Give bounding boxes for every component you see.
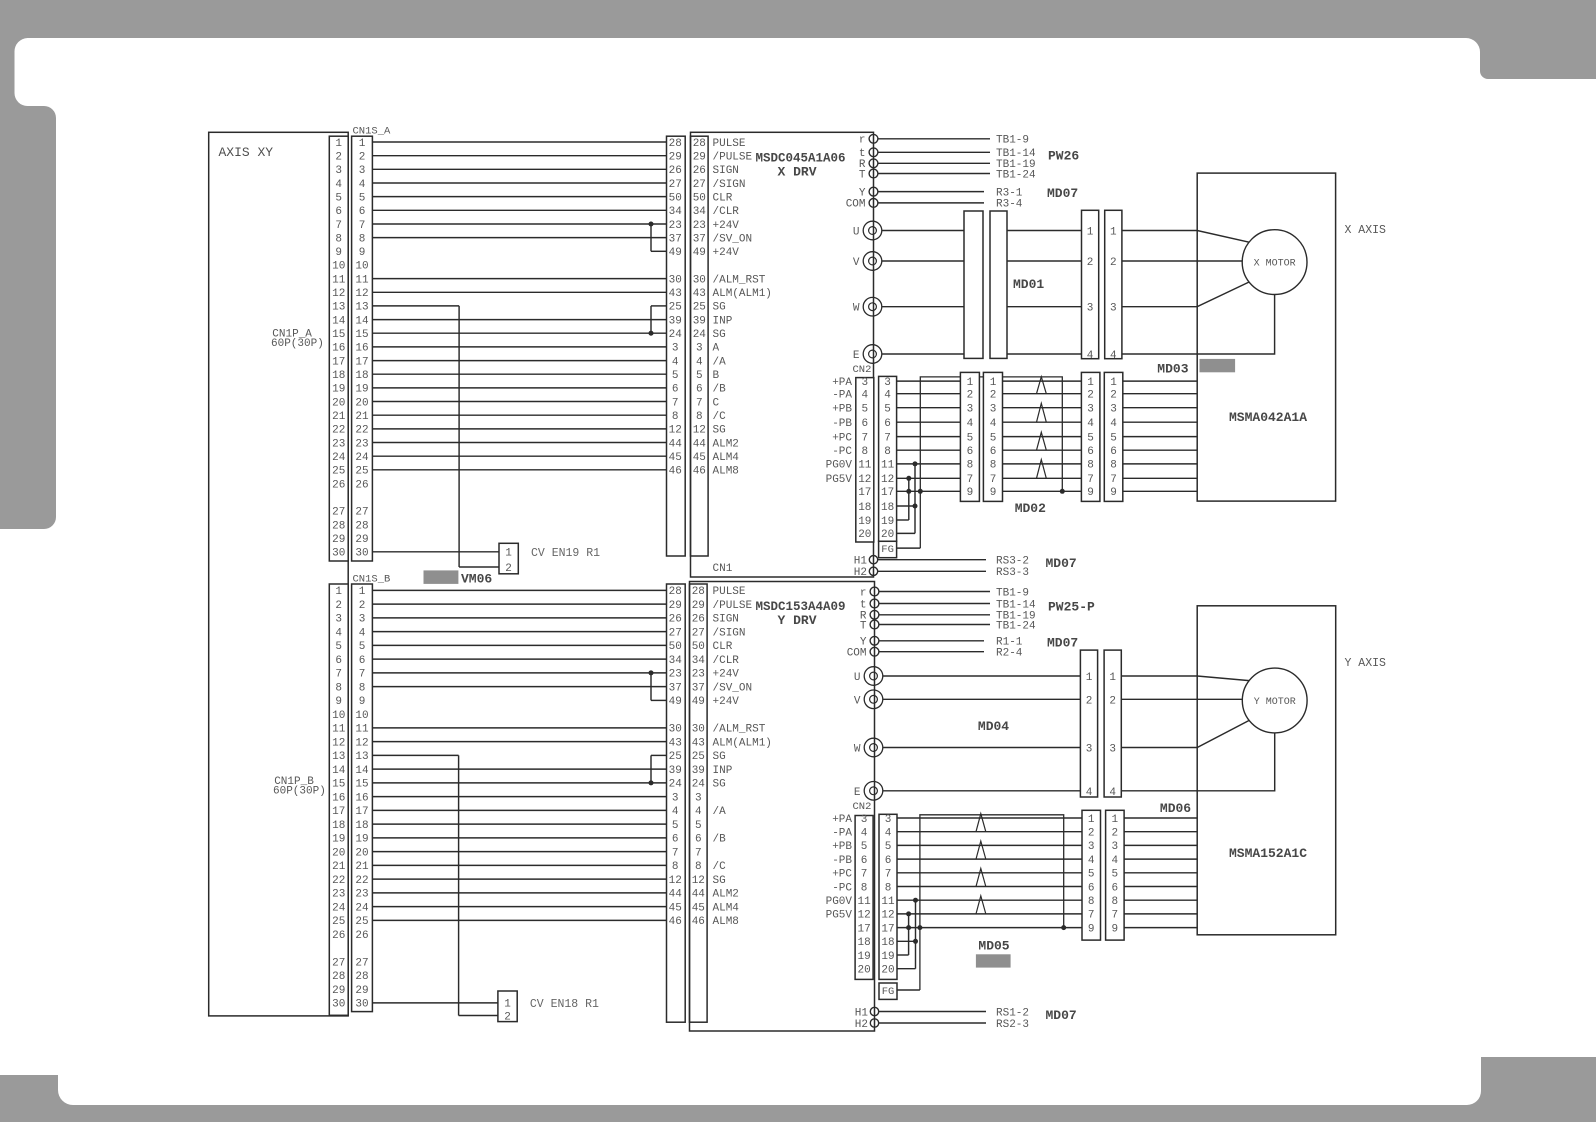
MD02 bar1 pin numbers (967, 377, 974, 499)
junction dot SG (649, 780, 654, 785)
svg-text:5: 5 (1087, 432, 1094, 444)
motor power connector bar right (1105, 210, 1122, 358)
connector CN1S_A pin numbers 1-30 (355, 138, 369, 560)
svg-text:/SIGN: /SIGN (713, 179, 746, 191)
svg-text:39: 39 (693, 315, 706, 327)
svg-text:3: 3 (1086, 744, 1093, 756)
svg-text:10: 10 (332, 261, 345, 273)
wire terminal COM to R3-4 (878, 202, 984, 204)
svg-text:CV EN19 R1: CV EN19 R1 (531, 547, 600, 560)
svg-text:A: A (713, 343, 720, 355)
svg-text:12: 12 (692, 875, 705, 887)
gray mark VM06 (424, 570, 459, 584)
svg-text:21: 21 (355, 411, 369, 423)
svg-text:15: 15 (332, 329, 345, 341)
wire CN1S_B pin 17 to CN1 connector (372, 809, 666, 811)
svg-text:25: 25 (355, 916, 368, 928)
svg-text:5: 5 (335, 641, 342, 653)
svg-text:/PULSE: /PULSE (713, 152, 753, 164)
wire terminal COM to R2-4 (879, 651, 984, 653)
terminal W (B) (864, 738, 883, 757)
svg-text:TB1-9: TB1-9 (996, 587, 1029, 599)
wire CN2 pin 11 (897, 899, 1082, 901)
encoder bar4 pin numbers (1111, 814, 1118, 936)
wire E MD01 to motor connector (1007, 353, 1082, 355)
svg-text:V: V (854, 695, 861, 707)
svg-text:45: 45 (669, 452, 682, 464)
svg-text:29: 29 (355, 534, 368, 546)
MD05 encoder connector bar 4 (1106, 810, 1125, 940)
svg-text:2: 2 (1088, 828, 1095, 840)
svg-text:t: t (860, 599, 867, 611)
svg-text:6: 6 (1087, 446, 1094, 458)
wire encoder row 8 mid (1081, 899, 1083, 901)
terminal E (A) (863, 345, 882, 364)
svg-text:27: 27 (692, 627, 705, 639)
wire CN2 pin 5 to encoder cable (897, 407, 961, 409)
wire encoder row 6 mid (1003, 449, 1082, 451)
wire encoder row 9 to motor (1123, 490, 1197, 492)
svg-text:19: 19 (881, 951, 894, 963)
svg-text:8: 8 (885, 882, 892, 894)
svg-text:8: 8 (695, 861, 702, 873)
svg-text:CN1: CN1 (713, 563, 733, 575)
driver CN1 signal labels (B) (713, 586, 772, 928)
svg-text:8: 8 (1088, 896, 1095, 908)
wire CN1S_B pin 3 to CN1 connector (372, 617, 666, 619)
junction dot pin 17 a (906, 925, 911, 930)
wire CN1S_A pin 17 to CN1 connector (372, 360, 666, 362)
svg-text:30: 30 (669, 274, 682, 286)
svg-text:18: 18 (332, 370, 345, 382)
svg-text:19: 19 (332, 384, 345, 396)
svg-text:CLR: CLR (713, 641, 733, 653)
terminal T (B) (870, 620, 879, 629)
svg-text:15: 15 (332, 779, 345, 791)
svg-text:1: 1 (335, 138, 342, 150)
wire encoder row 5 to motor (1123, 436, 1197, 438)
MD02 encoder connector bar 2 (983, 372, 1002, 501)
svg-text:44: 44 (669, 438, 683, 450)
svg-text:28: 28 (355, 520, 368, 532)
wire CN2 pin 20 stub (897, 532, 915, 534)
cable CN2 pin numbers (B) (881, 814, 895, 977)
svg-text:4: 4 (335, 179, 342, 191)
svg-text:/B: /B (713, 384, 727, 396)
terminal Y (B) (870, 636, 879, 645)
svg-text:4: 4 (1088, 855, 1095, 867)
svg-text:29: 29 (332, 985, 345, 997)
svg-text:+24V: +24V (713, 669, 740, 681)
wire CN1S_A pin 2 to CN1 connector (372, 155, 666, 157)
wire encoder row 4 mid (1003, 421, 1082, 423)
svg-text:16: 16 (332, 343, 345, 355)
svg-text:PW25-P: PW25-P (1048, 600, 1095, 615)
wire encoder row 1 mid (1081, 817, 1083, 819)
wire drop to CV connector pin 2 (459, 1015, 498, 1017)
svg-text:W: W (853, 303, 860, 315)
connector CN1P_A pin strip (329, 136, 348, 561)
svg-text:29: 29 (692, 600, 705, 612)
svg-text:-PC: -PC (832, 882, 852, 894)
driver CN2 pin numbers (A) (858, 377, 872, 541)
svg-text:4: 4 (885, 828, 892, 840)
MD02 encoder connector bar 1 (960, 372, 979, 501)
svg-text:12: 12 (693, 425, 706, 437)
svg-text:+24V: +24V (713, 696, 740, 708)
wire CN1S_A pin 21 to CN1 connector (372, 414, 666, 416)
svg-text:13: 13 (332, 302, 345, 314)
wire W to motor connector (883, 747, 1081, 749)
wire CN1S_B pin 6 to CN1 connector (372, 658, 666, 660)
wire encoder row 4 to motor (1123, 421, 1197, 423)
terminal V (A) (863, 252, 882, 271)
svg-text:3: 3 (672, 343, 679, 355)
wire V phase to motor (1122, 260, 1242, 262)
wire CN1S_A pin 16 to CN1 connector (372, 346, 666, 348)
svg-text:18: 18 (858, 502, 871, 514)
svg-text:6: 6 (967, 446, 974, 458)
twisted pair symbol 1 (976, 814, 986, 832)
svg-text:7: 7 (884, 432, 891, 444)
wire +24V jumper vertical (650, 673, 652, 701)
svg-text:25: 25 (669, 302, 682, 314)
wire CN1S_A pin 18 to CN1 connector (372, 373, 666, 375)
wire U phase to motor (1121, 676, 1249, 681)
wire encoder row 9 to motor (1124, 927, 1197, 929)
svg-text:ALM2: ALM2 (713, 889, 739, 901)
wire CN1S_A pin 22 to CN1 connector (372, 428, 666, 430)
svg-text:9: 9 (967, 487, 974, 499)
svg-text:U: U (854, 672, 861, 684)
wire CN1S_A pin 7 to CN1 connector (372, 223, 666, 225)
svg-text:r: r (860, 587, 867, 599)
svg-text:27: 27 (669, 627, 682, 639)
junction dot pin 18 (913, 504, 918, 509)
wire CN1S_A pin 19 to CN1 connector (372, 387, 666, 389)
svg-text:23: 23 (669, 220, 682, 232)
wire encoder row 4 mid (1081, 858, 1083, 860)
svg-text:MD07: MD07 (1046, 556, 1077, 571)
svg-text:23: 23 (692, 669, 705, 681)
svg-text:PG5V: PG5V (826, 910, 853, 922)
terminal E (B) (864, 782, 883, 801)
svg-text:B: B (713, 370, 720, 382)
svg-text:INP: INP (713, 315, 733, 327)
svg-text:/PULSE: /PULSE (713, 600, 753, 612)
svg-text:X AXIS: X AXIS (1345, 224, 1387, 237)
svg-text:/C: /C (713, 861, 727, 873)
svg-text:4: 4 (1087, 418, 1094, 430)
wire terminal R to TB1-19 (879, 614, 990, 616)
svg-text:SG: SG (713, 302, 726, 314)
svg-text:8: 8 (967, 460, 974, 472)
wire CN1S_A pin 20 to CN1 connector (372, 401, 666, 403)
svg-text:25: 25 (693, 302, 706, 314)
wire U to MD01 connector (882, 230, 964, 232)
svg-text:1: 1 (1109, 672, 1116, 684)
wire encoder row 3 to motor (1123, 407, 1197, 409)
wire +24V jumper horizontal (651, 699, 667, 701)
wire CN1S_B pin 11 to CN1 connector (372, 727, 666, 729)
svg-text:6: 6 (1110, 446, 1117, 458)
svg-text:Y DRV: Y DRV (777, 613, 816, 628)
svg-text:12: 12 (669, 425, 682, 437)
wire CN2 pin 3 to encoder cable (897, 380, 961, 382)
svg-text:28: 28 (692, 586, 705, 598)
svg-text:25: 25 (692, 751, 705, 763)
svg-text:CN2: CN2 (853, 364, 872, 376)
svg-text:18: 18 (355, 820, 368, 832)
svg-text:12: 12 (669, 875, 682, 887)
wire CN2 pin 6 to encoder cable (897, 421, 961, 423)
svg-text:5: 5 (884, 404, 891, 416)
svg-text:/ALM_RST: /ALM_RST (713, 274, 766, 286)
svg-text:SG: SG (713, 751, 726, 763)
svg-text:30: 30 (693, 274, 706, 286)
wire CN1S_B pin 25 to CN1 connector (372, 919, 666, 921)
wire encoder row 2 to motor (1124, 831, 1197, 833)
svg-text:2: 2 (1087, 390, 1094, 402)
encoder signal labels (A) (826, 377, 853, 486)
svg-text:MD04: MD04 (978, 719, 1009, 734)
svg-text:2: 2 (1086, 695, 1093, 707)
wire encoder row 8 to motor (1124, 899, 1197, 901)
svg-text:RS2-3: RS2-3 (996, 1019, 1029, 1031)
driver MSDC045A1A06 box (691, 132, 874, 577)
motor box MSMA042A1A (1197, 173, 1335, 501)
svg-text:16: 16 (355, 343, 368, 355)
svg-text:1: 1 (504, 999, 511, 1011)
wire terminal t to TB1-14 (878, 151, 990, 153)
junction dot pin 12 (906, 911, 911, 916)
svg-text:MD06: MD06 (1160, 801, 1191, 816)
wire E to MD01 connector (882, 353, 964, 355)
wire terminal r to TB1-9 (878, 138, 990, 140)
svg-text:4: 4 (884, 390, 891, 402)
svg-text:8: 8 (696, 411, 703, 423)
svg-text:20: 20 (355, 397, 368, 409)
svg-text:6: 6 (359, 206, 366, 218)
wire E to motor connector (883, 790, 1081, 792)
wire encoder row 2 mid (1081, 831, 1083, 833)
svg-text:30: 30 (692, 724, 705, 736)
svg-text:2: 2 (505, 563, 512, 575)
svg-text:CN1S_B: CN1S_B (353, 574, 391, 586)
svg-text:8: 8 (1087, 460, 1094, 472)
svg-text:24: 24 (693, 329, 707, 341)
wire encoder row 5 mid (1003, 436, 1082, 438)
connector CV EN18 box (498, 991, 517, 1022)
svg-text:2: 2 (359, 600, 366, 612)
svg-text:ALM8: ALM8 (713, 466, 739, 478)
svg-text:1: 1 (1087, 227, 1094, 239)
svg-text:25: 25 (332, 916, 345, 928)
wire V to motor connector (883, 698, 1081, 700)
svg-text:50: 50 (669, 641, 682, 653)
svg-text:46: 46 (669, 466, 682, 478)
connector CV EN19 box (499, 543, 518, 574)
svg-text:/SV_ON: /SV_ON (713, 233, 753, 245)
wire CN1S_B pin 2 to CN1 connector (372, 603, 666, 605)
svg-text:11: 11 (858, 460, 872, 472)
svg-text:28: 28 (669, 586, 682, 598)
terminal R (A) (869, 159, 878, 168)
svg-text:COM: COM (846, 199, 866, 211)
svg-text:6: 6 (672, 834, 679, 846)
svg-text:4: 4 (1110, 418, 1117, 430)
svg-text:12: 12 (858, 474, 871, 486)
svg-text:/CLR: /CLR (713, 655, 740, 667)
svg-text:5: 5 (1088, 869, 1095, 881)
svg-text:3: 3 (1110, 404, 1117, 416)
svg-text:13: 13 (332, 751, 345, 763)
wire CN1S_B pin 1 to CN1 connector (372, 589, 666, 591)
svg-text:8: 8 (861, 882, 868, 894)
svg-text:4: 4 (695, 806, 702, 818)
svg-text:28: 28 (332, 520, 345, 532)
svg-text:9: 9 (335, 247, 342, 259)
wire drop to CV connector pin 2 (459, 566, 499, 568)
motor power connector bar right (1104, 650, 1121, 797)
svg-text:9: 9 (359, 247, 366, 259)
svg-text:6: 6 (335, 655, 342, 667)
svg-text:T: T (860, 620, 867, 632)
connector CN1S_B strip (352, 584, 373, 1012)
svg-text:20: 20 (332, 847, 345, 859)
svg-text:PULSE: PULSE (713, 138, 746, 150)
junction dot +24V (649, 222, 654, 227)
svg-text:28: 28 (669, 138, 682, 150)
svg-text:18: 18 (355, 370, 368, 382)
junction dot SG (649, 331, 654, 336)
svg-text:+PC: +PC (832, 869, 852, 881)
wire CN1S_B pin 30 to CV connector pin 1 (372, 1002, 498, 1004)
terminal H2 (A) (869, 567, 877, 575)
wire CN1S_A pin 11 to CN1 connector (372, 278, 666, 280)
svg-text:17: 17 (858, 487, 871, 499)
wire CN1S_B pin 24 to CN1 connector (372, 906, 666, 908)
svg-text:SG: SG (713, 779, 726, 791)
cable CN2 pin numbers (A) (881, 377, 895, 541)
wire SG jumper vertical (650, 755, 652, 783)
svg-text:r: r (859, 135, 866, 147)
terminal V (B) (864, 690, 883, 709)
wire encoder row 7 mid (1081, 913, 1083, 915)
terminal Y (A) (869, 187, 878, 196)
svg-text:INP: INP (713, 765, 733, 777)
CN1 cable strip pin numbers (A) (669, 138, 683, 478)
svg-text:SG: SG (713, 329, 726, 341)
svg-text:CN2: CN2 (853, 801, 872, 813)
svg-text:14: 14 (355, 315, 369, 327)
svg-text:17: 17 (881, 487, 894, 499)
svg-text:23: 23 (332, 889, 345, 901)
svg-text:/A: /A (713, 806, 727, 818)
wire CN1S_B pin 20 to CN1 connector (372, 851, 666, 853)
svg-text:3: 3 (1110, 303, 1117, 315)
svg-text:/SIGN: /SIGN (713, 627, 746, 639)
svg-text:2: 2 (335, 152, 342, 164)
terminal t (A) (869, 148, 878, 157)
svg-text:25: 25 (355, 466, 368, 478)
svg-text:43: 43 (692, 737, 705, 749)
svg-text:39: 39 (669, 315, 682, 327)
svg-text:FG: FG (882, 986, 895, 998)
svg-text:7: 7 (359, 220, 366, 232)
wire H2 to RS2-3 (879, 1022, 986, 1024)
terminal COM (A) (869, 199, 878, 208)
svg-text:3: 3 (990, 404, 997, 416)
svg-text:37: 37 (692, 682, 705, 694)
svg-text:CLR: CLR (713, 192, 733, 204)
terminal H2 (B) (870, 1019, 878, 1027)
svg-text:19: 19 (881, 516, 894, 528)
wire CN1S_A pin 6 to CN1 connector (372, 209, 666, 211)
svg-text:1: 1 (1110, 377, 1117, 389)
svg-text:E: E (853, 350, 860, 362)
svg-text:5: 5 (359, 641, 366, 653)
svg-text:13: 13 (355, 302, 368, 314)
terminal r (B) (870, 587, 879, 596)
driver MSDC153A4A09 box (690, 582, 875, 1032)
svg-text:7: 7 (861, 432, 868, 444)
svg-text:4: 4 (1110, 350, 1117, 362)
svg-text:17: 17 (332, 806, 345, 818)
svg-text:+24V: +24V (713, 220, 740, 232)
svg-text:ALM8: ALM8 (713, 916, 739, 928)
wire SG jumper vertical (650, 306, 652, 333)
motor power connector pins 1-4 right (1109, 672, 1116, 799)
svg-text:3: 3 (1109, 744, 1116, 756)
svg-text:29: 29 (355, 985, 368, 997)
wire encoder row 6 mid (1081, 886, 1083, 888)
wire terminal T to TB1-24 (878, 173, 990, 175)
svg-text:25: 25 (332, 466, 345, 478)
cable CN2 FG cell (B) (879, 983, 897, 999)
twisted pair symbol 4 (1037, 460, 1047, 479)
wire encoder row 6 to motor (1124, 886, 1197, 888)
svg-text:MD05: MD05 (978, 939, 1009, 954)
wire CN2 pin 19 stub (897, 519, 909, 521)
svg-text:7: 7 (861, 869, 868, 881)
junction dot +24V (649, 670, 654, 675)
cable CN2 FG cell (A) (879, 541, 897, 557)
svg-text:X DRV: X DRV (777, 165, 816, 180)
terminal H1 (B) (870, 1007, 878, 1015)
wire CN2 pin 18 stub (897, 505, 915, 507)
wire CN2 FG stub (897, 547, 921, 549)
svg-text:50: 50 (669, 192, 682, 204)
svg-text:23: 23 (355, 438, 368, 450)
gray mark near MD05 (976, 954, 1011, 967)
svg-text:6: 6 (695, 834, 702, 846)
svg-text:30: 30 (355, 999, 368, 1011)
svg-text:1: 1 (1087, 377, 1094, 389)
svg-text:44: 44 (693, 438, 707, 450)
wire U phase to motor (1122, 231, 1249, 243)
svg-text:2: 2 (1110, 390, 1117, 402)
svg-text:43: 43 (669, 288, 682, 300)
svg-text:50: 50 (692, 641, 705, 653)
svg-text:2: 2 (1087, 257, 1094, 269)
wire CN2 pin 7 to encoder cable (897, 872, 1082, 874)
CN1 cable strip pin numbers (B) (669, 586, 683, 928)
svg-text:24: 24 (332, 452, 346, 464)
wire CN1S_B pin 12 to CN1 connector (372, 741, 666, 743)
svg-text:+PA: +PA (832, 814, 852, 826)
svg-text:4: 4 (359, 627, 366, 639)
